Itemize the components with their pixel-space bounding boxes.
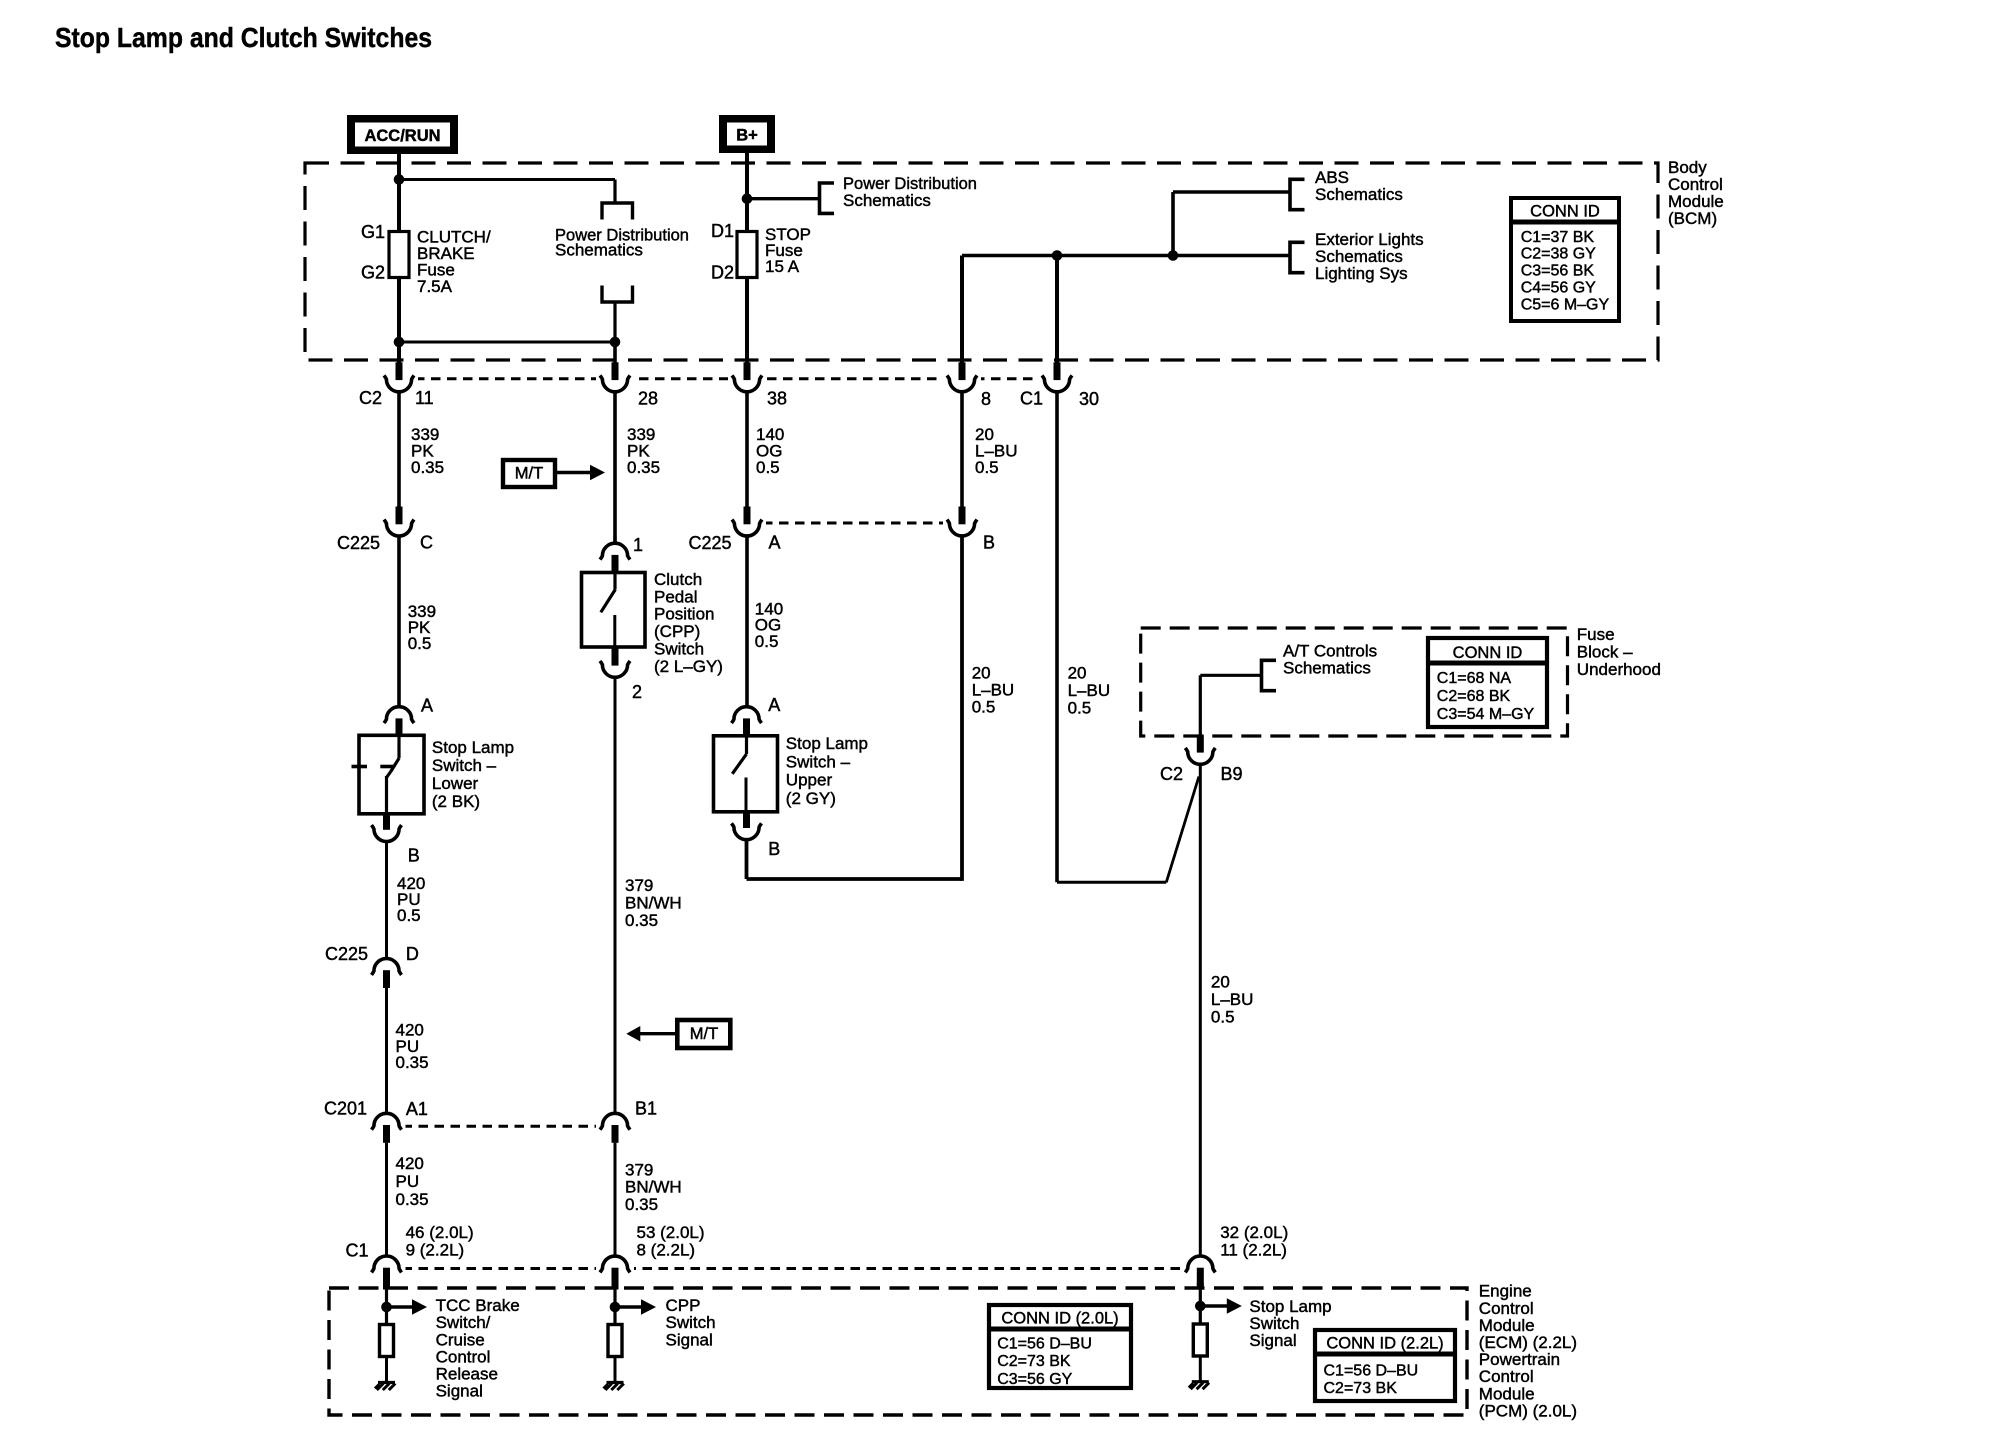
connector pin 38 (BCM) [744,362,751,380]
svg-text:53 (2.0L): 53 (2.0L) [637,1223,705,1242]
wire 20 L-BU to ECM segment [1199,764,1202,1256]
svg-text:0.5: 0.5 [1211,1008,1235,1027]
svg-text:0.35: 0.35 [625,1195,658,1214]
wire 420 PU 0.35 segment [385,988,388,1114]
connector C2 pin 11 (BCM) [396,362,403,380]
wire link diagonal to B9 [1166,777,1199,883]
svg-text:B: B [983,533,995,553]
wire link to power distribution bracket [747,197,820,200]
wire 20 L-BU segment col4 [960,391,964,510]
resistor ECM stop lamp input [1193,1324,1207,1356]
svg-text:Signal: Signal [1249,1331,1296,1350]
svg-text:9 (2.2L): 9 (2.2L) [406,1241,465,1260]
svg-text:(2 L–GY): (2 L–GY) [654,657,723,676]
svg-text:0.5: 0.5 [975,458,999,477]
connector ECM col2 [612,1268,619,1286]
svg-text:0.5: 0.5 [397,906,421,925]
wire ACC/RUN drop upper [397,154,401,232]
wire resistor to ground col3 [1199,1356,1202,1381]
arrow CPP switch signal [615,1305,643,1308]
svg-text:CONN ID: CONN ID [1453,644,1523,662]
svg-text:(2 GY): (2 GY) [786,789,836,808]
power source B+ [719,115,775,153]
svg-text:C3=54 M–GY: C3=54 M–GY [1437,706,1535,723]
connector pin A (stop lamp switch upper) [743,718,750,736]
connector C225 pin C [396,507,403,525]
Body Control Module (BCM) dashed box [305,163,1658,360]
svg-text:Schematics: Schematics [555,241,643,260]
svg-text:Stop Lamp: Stop Lamp [786,734,868,753]
svg-text:B: B [768,839,780,859]
svg-text:379: 379 [625,1160,653,1179]
wire ACC/RUN fuse output [397,278,401,363]
svg-text:Block –: Block – [1577,643,1633,662]
junction node bus/ABS branch [1168,250,1179,261]
svg-text:D1: D1 [711,221,734,241]
wire ABS branch vertical [1171,192,1175,256]
ECM CONN ID (2.2L) table [1315,1330,1455,1401]
svg-text:C4=56 GY: C4=56 GY [1521,280,1596,297]
junction node CPP arrow [610,1302,621,1313]
connector C2 pin B9 (fuse block) [1197,735,1204,753]
svg-text:8 (2.2L): 8 (2.2L) [637,1241,696,1260]
svg-text:C3=56 BK: C3=56 BK [1521,263,1595,280]
junction node on ACC/RUN feed [394,174,405,185]
junction node TCC arrow [381,1302,392,1313]
C225 harness dashed link row [747,522,962,525]
svg-text:420: 420 [396,1154,424,1173]
svg-text:Underhood: Underhood [1577,660,1661,679]
wire 140 OG 0.5 segment col3 [745,391,749,510]
svg-text:C2=68 BK: C2=68 BK [1437,688,1511,705]
power source ACC/RUN [347,115,458,154]
svg-text:D: D [406,944,419,964]
ground ECM col1 [378,1381,395,1384]
CPP switch body [582,573,646,648]
wire BCM internal bus y255 [962,254,1290,258]
svg-text:38: 38 [767,389,787,409]
wire 420 PU 0.35 lower segment [385,1143,388,1257]
ground ECM col3 [1192,1380,1209,1383]
M/T manual transmission flag (lower) [677,1020,730,1048]
svg-text:C225: C225 [325,944,368,964]
svg-text:A: A [769,533,781,553]
svg-text:0.5: 0.5 [408,634,432,653]
svg-text:Schematics: Schematics [843,191,931,210]
fuse STOP 15A [737,232,757,278]
BCM harness dashed link row [399,377,1057,380]
wire 420 PU 0.5 segment [385,841,388,959]
wire BCM pin 30 drop [1055,256,1059,363]
off-page connection top bracket (power distribution) [602,203,633,220]
svg-text:11 (2.2L): 11 (2.2L) [1220,1241,1287,1260]
wire B+ drop upper [745,153,749,232]
arrow M/T to CPP circuit [555,471,592,474]
arrow M/T to CPP wire [638,1032,677,1035]
svg-text:Lower: Lower [432,774,479,793]
arrow stop lamp switch signal [1200,1304,1229,1307]
svg-text:CONN ID (2.0L): CONN ID (2.0L) [1001,1310,1118,1328]
BCM CONN ID table [1511,198,1619,321]
connector C201 pin A1 [383,1125,390,1143]
wire link to power distribution (top) [399,178,615,181]
svg-text:B1: B1 [635,1099,657,1119]
connector C1 ECM col1 [383,1268,390,1286]
connector C1 pin 30 (BCM) [1054,362,1061,380]
svg-text:G2: G2 [361,263,385,283]
svg-text:C2=73 BK: C2=73 BK [997,1353,1071,1370]
svg-text:379: 379 [625,876,653,895]
svg-text:Signal: Signal [436,1382,483,1401]
off-page bracket Exterior Lights [1290,242,1305,272]
connector pin B (stop lamp switch upper) [743,810,750,828]
junction node stop lamp arrow [1195,1301,1206,1312]
svg-text:2: 2 [632,682,642,702]
svg-text:M/T: M/T [515,465,543,483]
svg-text:0.5: 0.5 [755,632,779,651]
connector pin 8 (BCM) [959,362,966,380]
wire to BCM pin 28 [613,342,617,363]
svg-text:C2: C2 [359,388,382,408]
svg-text:(PCM) (2.0L): (PCM) (2.0L) [1479,1401,1577,1420]
svg-text:Schematics: Schematics [1283,659,1371,678]
stop lamp switch lower body [352,735,425,814]
svg-text:A: A [421,696,433,716]
junction node on B+ feed [742,193,753,204]
wire from upper switch B down [745,839,749,879]
svg-text:Signal: Signal [666,1330,713,1349]
wire STOP fuse output [745,278,749,363]
svg-text:0.35: 0.35 [411,458,444,477]
off-page connection bottom bracket (power distribution) [602,286,633,303]
arrow TCC brake switch signal [387,1305,415,1308]
wire link upper-switch to col4 [747,877,963,881]
svg-text:D2: D2 [711,263,734,283]
svg-text:M/T: M/T [690,1025,718,1043]
svg-text:L–BU: L–BU [1211,990,1254,1009]
svg-text:C1=68 NA: C1=68 NA [1437,670,1512,687]
wire 379 BN/WH segment upper [614,677,617,1114]
svg-text:(2 BK): (2 BK) [432,792,480,811]
off-page bracket power distribution (right of B+) [820,183,835,213]
junction node left y342 [394,337,405,348]
svg-text:0.5: 0.5 [756,458,780,477]
wire col4 down to link [960,536,964,881]
connector pin B (stop lamp switch lower) [383,812,390,830]
wire 339 PK 0.35 segment col1 [397,391,401,510]
svg-text:Switch –: Switch – [786,752,851,771]
svg-text:C225: C225 [337,533,380,553]
wire TCC brake switch signal entry [385,1285,388,1325]
connector C225 pin B [959,507,966,525]
svg-text:Switch: Switch [654,640,704,659]
svg-text:ACC/RUN: ACC/RUN [364,127,440,145]
wire into stop lamp switch lower [397,536,401,707]
svg-text:0.35: 0.35 [396,1053,429,1072]
fuse CLUTCH/BRAKE 7.5A [389,232,409,278]
svg-text:15 A: 15 A [765,257,800,276]
svg-text:C2=73 BK: C2=73 BK [1324,1380,1398,1397]
ECM harness dashed link row [387,1267,1201,1270]
svg-text:20: 20 [1068,663,1087,682]
wire ABS branch horizontal [1173,190,1290,193]
connector pin 1 (CPP switch) [612,555,619,573]
resistor ECM CPP input [608,1325,622,1357]
svg-text:Schematics: Schematics [1315,185,1403,204]
svg-text:G1: G1 [361,222,385,242]
svg-text:28: 28 [638,389,658,409]
wire 20 L-BU long segment col5 [1055,391,1059,882]
stop lamp switch upper body [714,736,778,812]
off-page bracket A/T Controls [1262,660,1277,690]
svg-text:CONN ID: CONN ID [1530,203,1600,221]
connector C225 pin D [383,970,390,988]
svg-text:Fuse: Fuse [1577,625,1615,644]
svg-text:8: 8 [981,389,991,409]
wire resistor to ground col2 [614,1357,617,1383]
svg-text:C201: C201 [324,1099,367,1119]
svg-text:Position: Position [654,605,714,624]
svg-text:30: 30 [1079,389,1099,409]
connector pin 2 (CPP switch) [612,648,619,666]
wire 339 PK 0.35 segment col2 [613,391,617,542]
svg-text:BN/WH: BN/WH [625,1178,682,1197]
svg-text:Stop Lamp and Clutch Switches: Stop Lamp and Clutch Switches [55,22,432,53]
svg-text:11: 11 [415,388,434,408]
svg-text:A: A [768,695,780,715]
svg-text:C1: C1 [345,1241,368,1261]
svg-text:B+: B+ [736,127,758,145]
svg-text:0.5: 0.5 [972,697,996,716]
svg-text:1: 1 [633,535,643,555]
svg-text:BN/WH: BN/WH [625,894,682,913]
C201 harness dashed link row [387,1125,616,1128]
svg-text:32 (2.0L): 32 (2.0L) [1220,1223,1288,1242]
svg-text:B9: B9 [1221,764,1243,784]
connector C201 pin B1 [612,1125,619,1143]
svg-text:(BCM): (BCM) [1668,209,1717,228]
wire from off-page symbol down [613,302,616,342]
wire 379 BN/WH lower segment [614,1143,617,1257]
svg-text:0.35: 0.35 [627,458,660,477]
Fuse Block Underhood dashed box [1141,628,1568,736]
wire link col5 to B9 horizontal [1057,881,1166,884]
svg-text:C2: C2 [1160,764,1183,784]
svg-text:Pedal: Pedal [654,587,697,606]
svg-text:0.35: 0.35 [625,911,658,930]
off-page bracket ABS [1290,179,1305,209]
svg-text:B: B [408,846,420,866]
svg-text:C5=6 M–GY: C5=6 M–GY [1521,296,1610,313]
connector ECM col3 [1197,1268,1204,1286]
wire BCM pin 8 drop [960,256,964,363]
svg-text:PU: PU [396,1172,420,1191]
wire into stop lamp switch upper [745,536,749,707]
junction node bus/pin30 [1052,250,1063,261]
svg-text:Lighting Sys: Lighting Sys [1315,264,1408,283]
svg-text:Stop Lamp: Stop Lamp [432,738,514,757]
Engine Control Module dashed box [329,1288,1467,1415]
svg-text:20: 20 [1211,973,1230,992]
svg-text:0.5: 0.5 [1068,698,1092,717]
svg-text:C: C [420,533,433,553]
svg-text:C1=37 BK: C1=37 BK [1521,229,1595,246]
svg-text:L–BU: L–BU [1068,681,1111,700]
svg-text:46 (2.0L): 46 (2.0L) [406,1223,474,1242]
junction node right y342 [610,337,621,348]
wire resistor to ground col1 [385,1357,388,1383]
connector pin A (stop lamp switch lower) [396,718,403,736]
fuse block CONN ID table [1428,638,1547,727]
svg-text:Switch –: Switch – [432,756,497,775]
wire fuse block drop [1199,675,1202,736]
wire link y342 [399,341,615,344]
ground ECM col2 [607,1381,624,1384]
M/T manual transmission flag (upper) [503,460,555,487]
svg-text:C225: C225 [688,533,731,553]
svg-text:A1: A1 [406,1099,428,1119]
connector pin 28 (BCM) [612,362,619,380]
svg-text:Upper: Upper [786,771,833,790]
svg-text:(CPP): (CPP) [654,622,700,641]
svg-text:C1: C1 [1020,389,1043,409]
resistor ECM TCC input [380,1325,394,1357]
svg-text:CONN ID (2.2L): CONN ID (2.2L) [1326,1335,1443,1353]
svg-text:C1=56 D–BU: C1=56 D–BU [1324,1363,1419,1380]
svg-text:C1=56 D–BU: C1=56 D–BU [997,1335,1092,1352]
wire CPP switch signal entry [613,1285,616,1325]
svg-text:0.35: 0.35 [396,1190,429,1209]
svg-text:C3=56 GY: C3=56 GY [997,1371,1072,1388]
wire stop lamp switch signal entry [1199,1285,1202,1325]
svg-text:C2=38 GY: C2=38 GY [1521,246,1596,263]
svg-text:7.5A: 7.5A [417,277,453,296]
wire stub into off-page symbol [613,180,616,204]
ECM CONN ID (2.0L) table [989,1305,1131,1388]
wire into CPP switch [613,536,616,544]
wire A/T bracket link [1200,674,1261,677]
connector C225 pin A [744,507,751,525]
svg-text:Clutch: Clutch [654,570,702,589]
